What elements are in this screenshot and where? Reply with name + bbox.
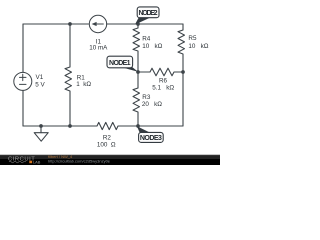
- svg-text:R4: R4: [142, 35, 151, 42]
- svg-text:10 mA: 10 mA: [89, 44, 108, 51]
- svg-text:5 V: 5 V: [35, 81, 45, 88]
- svg-text:R5: R5: [188, 35, 197, 42]
- svg-text:20 kΩ: 20 kΩ: [142, 101, 162, 108]
- svg-text:1 kΩ: 1 kΩ: [76, 81, 91, 88]
- svg-text:V1: V1: [36, 74, 44, 81]
- svg-text:5.1 kΩ: 5.1 kΩ: [152, 84, 174, 91]
- svg-text:LAB: LAB: [33, 159, 41, 164]
- svg-text:NODE3: NODE3: [140, 135, 162, 142]
- svg-text:10 kΩ: 10 kΩ: [142, 43, 162, 50]
- svg-text:100 Ω: 100 Ω: [97, 141, 116, 148]
- svg-text:http://circuitlab.com/c2d5wy3n: http://circuitlab.com/c2d5wy3nzy0e: [48, 159, 111, 164]
- svg-text:NODE1: NODE1: [109, 60, 131, 67]
- svg-text:10 kΩ: 10 kΩ: [188, 43, 208, 50]
- svg-text:NODE2: NODE2: [139, 10, 158, 17]
